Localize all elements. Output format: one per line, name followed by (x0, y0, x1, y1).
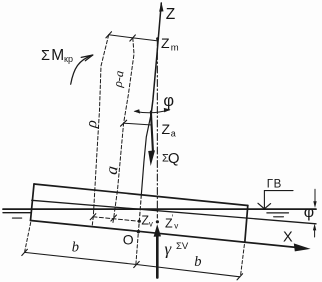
body waterline (tilted) (32, 200, 316, 224)
svg-text:ρ-a: ρ-a (110, 70, 126, 89)
node Z'v dot (156, 220, 159, 223)
svg-text:Z: Z (161, 35, 170, 51)
level line at Zm (109, 35, 158, 41)
svg-text:Σ: Σ (41, 48, 50, 64)
water line GV (horizontal) (3, 208, 316, 210)
svg-text:φ: φ (163, 92, 174, 110)
tick b-left start (22, 249, 28, 255)
extension line from origin O down (136, 234, 138, 264)
svg-text:′: ′ (172, 214, 174, 223)
tick on rho-a line top (130, 35, 136, 41)
moment arrow (curved) (71, 55, 93, 84)
water symbol left line2 (3, 212, 31, 214)
svg-text:φ: φ (304, 204, 314, 221)
svg-text:Z: Z (166, 6, 175, 23)
axis Z lower dashed segment through slab to origin (141, 113, 151, 195)
slab left edge (31, 184, 35, 221)
svg-text:ΣV: ΣV (176, 241, 189, 252)
slab right edge (245, 206, 248, 243)
svg-text:m: m (171, 43, 179, 54)
svg-text:Q: Q (168, 150, 180, 167)
svg-text:γ: γ (165, 239, 173, 258)
level line at Za (124, 123, 152, 125)
slab bottom edge continuing as axis X (31, 221, 297, 248)
axis Z arrowhead (159, 2, 163, 12)
angle arc phi at metacentre (135, 110, 170, 113)
svg-text:v: v (149, 220, 153, 229)
node O dot (137, 230, 140, 233)
svg-text:a: a (102, 165, 122, 176)
svg-text:a: a (171, 128, 176, 138)
slab top edge (34, 184, 248, 206)
svg-text:X: X (283, 229, 293, 245)
svg-text:O: O (123, 231, 134, 247)
angle phi dimension right upper arrow (314, 189, 316, 203)
dimension line b left (25, 252, 137, 264)
svg-text:M: M (51, 47, 64, 64)
water symbol left line3 (12, 217, 21, 219)
axis Z (151, 3, 161, 113)
force arrow sigma-Q (151, 112, 153, 152)
tick at O extension (134, 261, 140, 267)
angle phi dimension right lower arrow (314, 229, 316, 237)
level line at Zv (93, 217, 139, 222)
svg-text:b: b (72, 240, 79, 256)
vertical dash-dot line of buoyancy action (156, 39, 158, 218)
tick on rho line top (106, 32, 112, 38)
axis X arrowhead (294, 243, 311, 251)
water symbol right line2 (267, 212, 289, 214)
svg-text:Z: Z (162, 121, 171, 137)
tick a line bottom (111, 215, 117, 221)
dimension line rho-a / a (dashed) (113, 38, 134, 223)
svg-text:v: v (174, 222, 178, 231)
svg-text:b: b (194, 254, 201, 270)
dimension line rho (dashed, along body axis) (92, 35, 108, 225)
tick b-right end (237, 274, 243, 280)
dimension line b right (137, 265, 240, 277)
svg-text:кр: кр (64, 54, 73, 64)
svg-text:ρ: ρ (83, 119, 101, 129)
svg-text:ГВ: ГВ (267, 179, 282, 191)
tick rho line bottom (90, 214, 96, 220)
tick at Za level on a-line (121, 120, 127, 126)
extension line from slab bottom-right corner (241, 245, 245, 277)
water symbol right line3 (274, 216, 284, 218)
node Zm dot (156, 37, 159, 40)
buoyancy force arrow gamma sigma V (156, 235, 159, 278)
leader GV (264, 191, 293, 209)
node Zv dot (138, 220, 141, 223)
extension line from slab bottom-left corner (25, 223, 31, 252)
